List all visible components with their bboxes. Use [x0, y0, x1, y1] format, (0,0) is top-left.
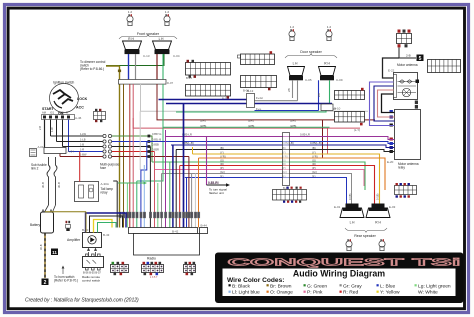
svg-text:F+Gr: F+Gr [256, 96, 263, 100]
svg-text:Radio: Radio [147, 257, 156, 261]
radio bottom connector 0 [111, 262, 129, 275]
wire lightgreen2 drop [157, 183, 159, 228]
svg-text:F+L: F+L [256, 107, 262, 111]
wires motor antenna C-loops [370, 82, 395, 126]
wire pink drop [154, 152, 156, 228]
wire brown below bar [123, 84, 125, 228]
connector grid A2 (2x9) [186, 85, 231, 101]
svg-text:Motor antenna: Motor antenna [397, 63, 418, 67]
svg-text:(WB): (WB) [248, 124, 254, 128]
svg-text:AM: AM [42, 111, 46, 115]
wire gray drop [161, 174, 163, 228]
svg-text:(WB): (WB) [200, 124, 206, 128]
svg-text:C-13: C-13 [143, 54, 150, 58]
svg-text:1 2: 1 2 [327, 25, 332, 29]
svg-text:L H: L H [293, 62, 299, 66]
rear connector grid right (colored) [395, 183, 417, 198]
door speaker RH [319, 62, 343, 83]
wire door-right green riser [329, 80, 331, 104]
radio bottom connector 1 [142, 262, 164, 275]
svg-text:W: White: W: White [418, 290, 438, 296]
svg-text:Door speaker: Door speaker [300, 50, 322, 54]
wire ignition drops [38, 120, 69, 152]
radio box [134, 234, 200, 261]
wire front-right speaker green down [162, 54, 164, 80]
svg-text:30-B: 30-B [57, 182, 61, 188]
svg-text:E-22: E-22 [388, 69, 395, 73]
svg-text:relay: relay [398, 166, 405, 170]
connector bulb door-right [326, 25, 332, 41]
connector bulb front-left [127, 10, 133, 26]
svg-text:0.85Y-G: 0.85Y-G [152, 132, 161, 136]
svg-text:relay: relay [101, 191, 108, 195]
wire yellow riser [192, 147, 194, 154]
inline connector B-06 vertical [283, 133, 290, 191]
fuse terminals circles [103, 134, 112, 158]
connector grid B (2x7) [238, 51, 275, 64]
svg-text:(B): (B) [312, 146, 316, 150]
wire door-left gray stub [287, 80, 293, 98]
svg-text:B-44: B-44 [201, 224, 208, 228]
wire black drop2 [175, 150, 177, 228]
svg-text:0.85L-B: 0.85L-B [152, 138, 161, 142]
fuse right pin squares [148, 135, 151, 158]
svg-text:B-13: B-13 [247, 89, 254, 93]
wire red below bar [129, 84, 131, 118]
legend entries row 2 [229, 290, 439, 296]
rear speaker RH [366, 194, 396, 225]
svg-text:B-43: B-43 [103, 233, 110, 237]
wire door-left blue riser [255, 80, 298, 100]
radio harness verticals [113, 104, 198, 228]
svg-text:2-B: 2-B [406, 54, 411, 58]
wire black B [176, 150, 395, 152]
wire door-right gray stub [255, 80, 322, 110]
label sub fusible link [31, 163, 47, 171]
wire light green speaker feed [176, 111, 326, 113]
svg-text:R H: R H [324, 62, 330, 66]
wire blue drop3 [186, 178, 188, 228]
wire pink [155, 170, 365, 187]
wire front-left speaker gray down [135, 54, 137, 80]
svg-text:D-07: D-07 [167, 81, 174, 85]
svg-text:B-56 B-55 B-57: B-56 B-55 B-57 [83, 271, 101, 275]
svg-text:11: 11 [52, 250, 57, 255]
wire navy riser at B-13 [247, 89, 263, 111]
rear connector grid B-08 [273, 187, 307, 203]
svg-text:1-R: 1-R [80, 148, 84, 152]
wire dimmer dark green horizontal [106, 54, 164, 66]
wire red drop2 [179, 166, 181, 228]
wire green below bar to radio [137, 84, 163, 181]
svg-text:A-46: A-46 [75, 116, 82, 120]
svg-text:(WB): (WB) [290, 124, 296, 128]
wire antenna black drop [383, 58, 400, 78]
svg-text:ACC: ACC [76, 106, 84, 110]
svg-text:G: Green: G: Green [307, 283, 327, 289]
svg-text:E-01: E-01 [334, 205, 341, 209]
wire gray [162, 174, 352, 205]
node 5 black square [406, 54, 424, 62]
svg-text:10(B): 10(B) [348, 194, 352, 200]
svg-text:E-03: E-03 [389, 205, 396, 209]
svg-text:R: Red: R: Red [343, 290, 359, 296]
connector grid mid-right2 (2x7) [330, 107, 365, 125]
svg-text:flasher unit: flasher unit [209, 191, 224, 195]
connector dots grid Y [143, 266, 162, 279]
wire yellow [193, 154, 380, 205]
wire gray drop2 [191, 174, 193, 228]
wire navy thick drop [172, 145, 174, 228]
wire white drop3 [194, 174, 196, 228]
svg-text:L: Blue: L: Blue [380, 283, 396, 289]
svg-text:Br: Brown: Br: Brown [270, 283, 292, 289]
svg-text:O: Orange: O: Orange [270, 290, 293, 296]
green arrow jumper [118, 182, 147, 185]
svg-text:A-30A: A-30A [101, 182, 109, 186]
wire battery down yellow-black [39, 233, 45, 278]
svg-text:link 2: link 2 [31, 167, 39, 171]
wire red [180, 166, 375, 206]
connector grid A (2x9) [186, 60, 231, 80]
label multi-purpose fuse [100, 163, 120, 171]
svg-text:L H: L H [159, 37, 165, 41]
junction box A-34 [44, 148, 74, 154]
svg-text:R: R [66, 111, 68, 115]
svg-text:(Refer to P.8-66.): (Refer to P.8-66.) [80, 67, 104, 71]
harness BR WB labels [200, 119, 296, 128]
svg-text:(L): (L) [220, 174, 223, 178]
wire lightgreen drop [126, 183, 128, 228]
svg-text:0.85-LR: 0.85-LR [300, 133, 310, 137]
svg-text:Audio Wiring Diagram: Audio Wiring Diagram [293, 268, 385, 278]
connector B-49 near amp [66, 221, 71, 231]
radio connector strip [129, 224, 208, 234]
svg-text:C-09: C-09 [336, 78, 343, 82]
svg-text:Lg: Light green: Lg: Light green [418, 283, 451, 289]
wire front-left speaker blue down [128, 54, 130, 80]
wire black rail drop [149, 147, 151, 228]
svg-text:1 2: 1 2 [128, 10, 133, 14]
svg-text:LOCK: LOCK [77, 97, 88, 101]
svg-text:fuse: fuse [100, 166, 106, 170]
wire dgreen drop [169, 162, 171, 228]
svg-text:30-B: 30-B [41, 182, 45, 188]
wire white below bar [141, 84, 369, 111]
wire olive from dimmer down to radio [106, 66, 121, 228]
node 2 black square [42, 279, 49, 286]
wire pink-red below bar [133, 84, 360, 128]
label to horn switch [54, 266, 78, 283]
svg-text:2B: 2B [317, 93, 321, 97]
wire blue jog drop [141, 142, 147, 228]
svg-text:Created by : Natallica for Sta: Created by : Natallica for Starquestclub… [25, 298, 139, 304]
front speaker LH [123, 37, 150, 58]
wire dark green [152, 162, 365, 190]
svg-text:B-10: B-10 [334, 107, 341, 111]
svg-text:(BR): (BR) [248, 119, 254, 123]
svg-text:2: 2 [44, 280, 47, 286]
label Front speaker [119, 32, 177, 39]
svg-text:(L): (L) [312, 174, 315, 178]
fusible link S-curves [47, 157, 57, 205]
svg-text:1 2: 1 2 [290, 25, 295, 29]
motor antenna relay pin marks [390, 110, 393, 153]
svg-text:L H: L H [350, 221, 356, 225]
svg-text:(Refer to P.8-70.): (Refer to P.8-70.) [54, 279, 78, 283]
wire red fuse to tail lamp [79, 152, 81, 182]
svg-text:0.85R: 0.85R [152, 148, 159, 152]
radio bottom connector 2 [184, 262, 196, 275]
radio remote control switch [82, 254, 104, 283]
wire orange drop3 [198, 158, 200, 228]
label Door speaker [285, 50, 337, 58]
motor antenna box [388, 63, 419, 109]
svg-text:0.85-RI: 0.85-RI [208, 181, 219, 185]
multi purpose fuse rails [51, 136, 189, 162]
CONQUEST TSI logo text [228, 256, 461, 267]
label turn signal flasher [207, 137, 231, 196]
connector dots grid X [112, 266, 127, 272]
svg-text:Ll: Light blue: Ll: Light blue [232, 290, 260, 296]
main harness horizontals [146, 130, 395, 205]
connector grid right-top (2x8) [428, 60, 461, 73]
svg-text:1-B: 1-B [80, 143, 84, 147]
svg-text:1 2: 1 2 [165, 10, 170, 14]
svg-text:(L-Y): (L-Y) [354, 128, 360, 132]
svg-text:Ignition switch: Ignition switch [53, 81, 74, 85]
wire purple drop [165, 137, 167, 228]
svg-text:P: Pink: P: Pink [307, 290, 323, 296]
wire maroon drop right2 [327, 128, 329, 154]
svg-text:B: Black: B: Black [232, 283, 250, 289]
ignition connector row [42, 111, 82, 121]
wire blue speaker feed horizontal [159, 99, 247, 101]
connector grid mid-right (2x7) [335, 88, 365, 100]
label Rear speaker [345, 228, 387, 238]
banner black box [215, 253, 464, 304]
svg-text:E-20: E-20 [387, 160, 394, 164]
svg-text:Y: Yellow: Y: Yellow [380, 290, 400, 296]
front speaker RH [153, 37, 180, 58]
wire maroon drop right1 [322, 120, 324, 158]
svg-text:B-15: B-15 [186, 76, 192, 80]
svg-text:5: 5 [419, 56, 422, 62]
wire mast to node5 [399, 48, 416, 59]
door speaker LH [288, 62, 312, 83]
svg-text:control switch: control switch [82, 279, 101, 283]
battery [30, 205, 56, 233]
svg-text:IG1: IG1 [50, 111, 55, 115]
wire darkred below bar [157, 84, 375, 120]
wire navy LB [171, 145, 395, 148]
svg-text:ACC: ACC [58, 111, 64, 115]
wire green branch right [163, 126, 330, 128]
battery feed wire to amp area [45, 212, 86, 233]
svg-text:R H: R H [375, 221, 381, 225]
svg-text:Wire Color Codes:: Wire Color Codes: [227, 277, 284, 284]
wire pink drop-through [132, 118, 134, 228]
svg-text:A-34: A-34 [68, 150, 75, 154]
wire red drop-through [129, 118, 131, 228]
connector bulb front-right [164, 10, 170, 26]
svg-text:Rear speaker: Rear speaker [354, 234, 376, 238]
svg-text:1-BW: 1-BW [80, 153, 87, 157]
fuel tank unit box [75, 182, 114, 202]
wire green drop (from front spk) [136, 181, 138, 228]
connector bulb rear-right [379, 239, 385, 250]
svg-text:R H: R H [128, 37, 134, 41]
svg-text:CONQUEST TSi: CONQUEST TSi [228, 256, 461, 267]
legend entries row 1 [229, 283, 451, 289]
svg-text:10(B): 10(B) [375, 194, 379, 200]
rail labels [80, 132, 161, 157]
svg-text:1-LW: 1-LW [80, 132, 87, 136]
amp to remote switch arrows [87, 248, 97, 257]
connector bulb rear-left [346, 239, 352, 250]
small relay near ignition [94, 109, 106, 122]
connector dots grid Z [185, 266, 195, 272]
connector bulb door-left [289, 25, 295, 41]
small box B-10 [321, 104, 341, 111]
amp loop wires [86, 213, 127, 233]
svg-text:B-42: B-42 [172, 230, 179, 234]
svg-text:1-W: 1-W [50, 127, 54, 132]
svg-text:30-B: 30-B [39, 244, 43, 250]
svg-text:(BR): (BR) [200, 119, 206, 123]
rear speaker LH [334, 194, 364, 225]
svg-text:2-B: 2-B [38, 126, 42, 130]
connector grid C (2x7) [241, 76, 277, 93]
wire orange [199, 158, 386, 190]
svg-text:Amplifier: Amplifier [67, 238, 81, 242]
ignition switch [42, 81, 88, 116]
svg-text:C-04: C-04 [173, 54, 180, 58]
wire purple LR [166, 130, 395, 140]
harness labels [182, 128, 360, 178]
motor antenna relay box [387, 110, 421, 170]
svg-text:A-04: A-04 [38, 145, 44, 149]
svg-text:1 3 5 7: 1 3 5 7 [150, 276, 158, 279]
amplifier [67, 228, 110, 248]
component A-04 left edge [30, 145, 44, 157]
node 11 black square [51, 249, 58, 256]
svg-text:C-05: C-05 [305, 78, 312, 82]
wire front-right speaker darkred down [156, 54, 158, 80]
svg-text:START: START [42, 107, 55, 111]
svg-text:0.85B: 0.85B [152, 143, 159, 147]
wire white drop-through [139, 111, 141, 170]
wire black drop [113, 181, 117, 228]
wire navy thick main drop [183, 104, 185, 228]
svg-text:Battery: Battery [30, 223, 41, 227]
svg-text:(B): (B) [220, 146, 224, 150]
label to-dimmer-control-switch [80, 60, 106, 71]
wire navy main horizontal [166, 103, 332, 105]
wire blue L [146, 142, 395, 144]
harness pin label bands [119, 212, 200, 218]
svg-text:0.85(L-B): 0.85(L-B) [310, 141, 322, 145]
wire maroon drop [188, 157, 190, 228]
connector bar B-67 [119, 80, 174, 86]
svg-text:(BR): (BR) [290, 119, 296, 123]
motor antenna mast connector [397, 30, 412, 48]
legend white box [223, 269, 456, 297]
svg-text:1-LB: 1-LB [80, 138, 86, 142]
svg-text:2B: 2B [287, 88, 291, 92]
wire blue lower [185, 178, 347, 205]
svg-text:Gr: Gray: Gr: Gray [343, 283, 362, 289]
wire lightblue drop [143, 165, 145, 228]
